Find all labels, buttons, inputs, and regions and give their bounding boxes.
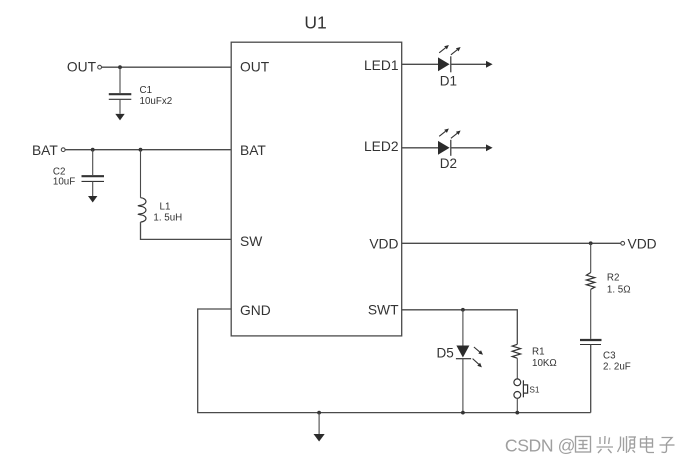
svg-text:R2: R2 (607, 273, 620, 284)
svg-text:10KΩ: 10KΩ (532, 358, 557, 369)
node OUT terminal circle (98, 65, 102, 69)
switch S1 (514, 379, 528, 398)
wire D5 to bottom rail (462, 359, 464, 413)
LED D5 (456, 346, 469, 358)
wire R2 to C3 (590, 289, 592, 339)
wire C3 to bottom rail (590, 345, 592, 413)
inductor L1 (138, 198, 146, 222)
capacitor C2 (82, 176, 105, 181)
svg-text:CSDN @: CSDN @ (505, 435, 575, 455)
wire ground stub (318, 413, 320, 434)
wire VDD pin to terminal (402, 242, 621, 244)
node junction BAT/C2 (91, 148, 95, 152)
svg-text:C1: C1 (140, 85, 153, 96)
wire LED2 pin (402, 147, 438, 149)
svg-text:BAT: BAT (32, 143, 58, 158)
capacitor C1 (109, 94, 132, 99)
wire C1 stem (119, 67, 121, 93)
svg-text:2. 2uF: 2. 2uF (603, 362, 631, 373)
ground (main) (314, 434, 325, 442)
wire SWT pin (402, 310, 518, 345)
watermark CSDN (505, 435, 576, 456)
node junction VDD/R2 (589, 241, 593, 245)
wire BAT terminal to chip (65, 149, 231, 151)
wire D1 anode out (451, 63, 486, 65)
svg-text:D5: D5 (437, 345, 454, 360)
node BAT terminal circle (61, 148, 65, 152)
D5 emission arrows (473, 347, 483, 367)
ground (C2) (88, 196, 97, 203)
wire R1 to S1 (516, 358, 518, 379)
wire BAT to L1 (140, 150, 142, 198)
svg-text:LED1: LED1 (364, 58, 399, 73)
ground (C1) (115, 114, 124, 121)
wire VDD to R2 (590, 243, 592, 272)
LED D1 (438, 57, 450, 71)
node arrow end D2 (486, 144, 493, 151)
node junction BAT/L1 (139, 148, 143, 152)
node arrow end D1 (486, 61, 493, 68)
node junction SWT/D5 (461, 308, 465, 312)
svg-text:VDD: VDD (628, 237, 657, 252)
LED D2 (438, 141, 450, 155)
svg-text:10uF: 10uF (53, 177, 75, 188)
resistor R2 (586, 273, 594, 290)
svg-text:1. 5uH: 1. 5uH (153, 213, 182, 224)
wire OUT terminal to chip (102, 66, 232, 68)
svg-text:SW: SW (240, 234, 262, 249)
op-amp U1 (231, 42, 402, 336)
wire C2 to ground (92, 181, 94, 196)
svg-text:VDD: VDD (369, 237, 398, 252)
svg-text:1. 5Ω: 1. 5Ω (607, 285, 631, 296)
D1 emission arrows (439, 45, 460, 55)
svg-text:SWT: SWT (368, 303, 399, 318)
node junction D5/bottom (461, 411, 465, 415)
watermark chinese glyphs (white emboss layer) (577, 437, 676, 454)
wire GND pin (198, 309, 591, 413)
wire L1 to SW (141, 222, 232, 239)
svg-text:L1: L1 (160, 202, 171, 213)
svg-text:GND: GND (240, 303, 271, 318)
wire S1 to bottom rail (516, 398, 518, 412)
resistor R1 (512, 344, 520, 358)
wire C2 stem (92, 150, 94, 175)
node junction OUT/C1 (118, 65, 122, 69)
svg-text:S1: S1 (529, 384, 540, 394)
svg-text:C3: C3 (603, 350, 616, 361)
node VDD terminal circle (621, 241, 625, 245)
wire LED1 pin (402, 63, 438, 65)
D2 emission arrows (439, 129, 460, 139)
capacitor C3 (580, 340, 602, 345)
svg-text:BAT: BAT (240, 143, 266, 158)
svg-text:OUT: OUT (67, 60, 97, 75)
svg-text:D2: D2 (440, 156, 457, 171)
node junction ground (317, 411, 321, 415)
watermark chinese glyphs (gray layer) (576, 436, 675, 453)
svg-text:LED2: LED2 (364, 139, 399, 154)
svg-text:R1: R1 (532, 346, 545, 357)
svg-text:OUT: OUT (240, 60, 270, 75)
svg-text:D1: D1 (440, 74, 457, 89)
svg-text:10uFx2: 10uFx2 (140, 96, 173, 107)
wire D5 stem (462, 310, 464, 346)
node junction S1/bottom (515, 411, 519, 415)
svg-text:U1: U1 (304, 13, 326, 33)
wire D2 anode out (451, 147, 486, 149)
wire C1 to ground (119, 99, 121, 114)
